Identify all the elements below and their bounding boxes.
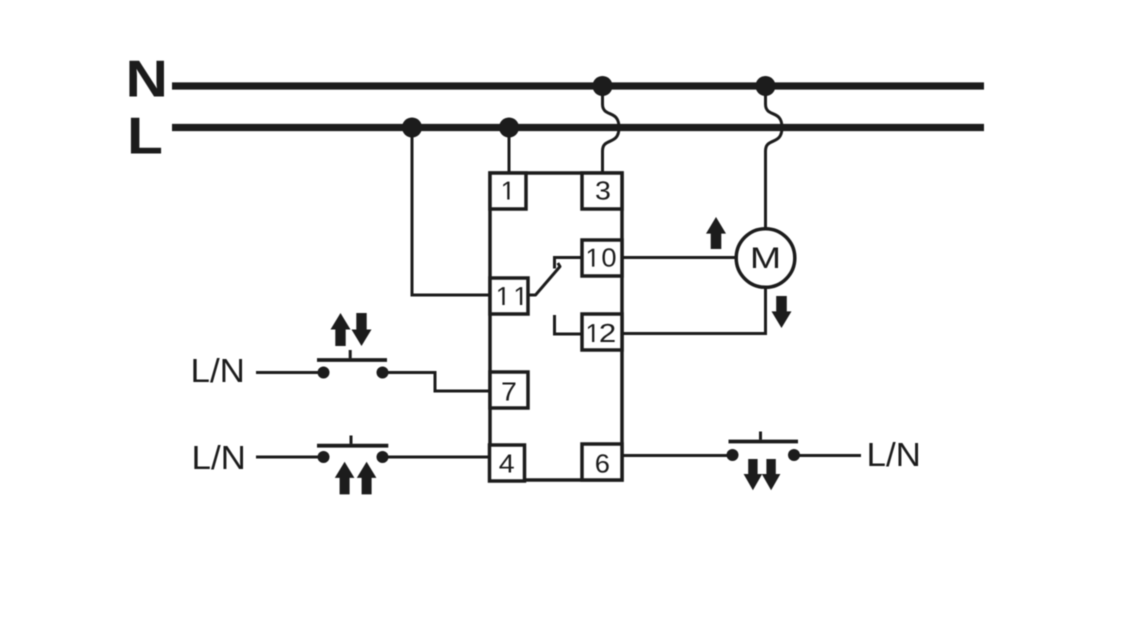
svg-text:M: M — [750, 241, 781, 275]
svg-text:N: N — [126, 50, 168, 108]
svg-text:L: L — [127, 107, 163, 165]
svg-text:0: 0 — [601, 243, 616, 272]
svg-text:4: 4 — [499, 449, 515, 478]
svg-text:L/N: L/N — [867, 437, 921, 474]
svg-text:6: 6 — [595, 449, 610, 478]
svg-text:7: 7 — [501, 377, 517, 406]
svg-text:L/N: L/N — [191, 353, 245, 390]
svg-text:L/N: L/N — [192, 440, 246, 477]
svg-text:2: 2 — [599, 319, 616, 348]
svg-text:3: 3 — [595, 176, 611, 205]
